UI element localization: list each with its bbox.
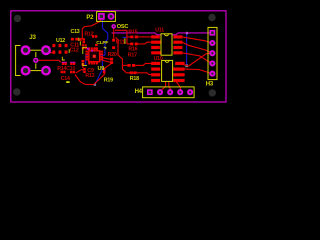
svg-text:R15: R15: [128, 29, 137, 35]
U9 pads top: [88, 47, 90, 50]
C11 pad 1: [82, 44, 84, 46]
J3 silk line bottom pads: [30, 70, 41, 72]
C12 pad 2: [85, 47, 87, 49]
H3 pad 4: [210, 61, 214, 65]
P2 silk box: [97, 12, 116, 22]
H4 pad 5: [188, 90, 192, 94]
capacitor C13: [71, 29, 82, 41]
wire red C9 to R13 stub: [82, 66, 84, 69]
R20 pad 1: [110, 58, 113, 61]
wire blue net from P2 pin1 down to U9: [102, 20, 107, 56]
wire red U11 to H3 pad3: [182, 42, 212, 53]
silk tick: [78, 38, 80, 41]
U9 pads right: [101, 51, 104, 53]
wire red U10 to H4 pad4: [175, 81, 180, 93]
wire red stub to R16 left pad: [127, 43, 131, 45]
U11 pads right: [173, 35, 182, 38]
C11 pad 2: [85, 44, 87, 46]
resistor R15: [128, 29, 138, 38]
wire red U10 to H4 pad3: [169, 80, 171, 92]
silk bar near R12: [79, 41, 81, 45]
silk tick bottom-left: [66, 81, 69, 83]
capacitor C14: [61, 71, 76, 83]
pad OSC: [112, 25, 115, 28]
mounting hole bottom-left: [13, 88, 20, 95]
P2 pad 2: [109, 14, 114, 19]
H3 pad 1 square: [210, 31, 214, 35]
wire blue vertical near H3: [186, 34, 188, 65]
resistor R16: [128, 43, 138, 53]
svg-text:U11: U11: [155, 28, 164, 34]
wire red OSC to R11: [113, 28, 115, 39]
silk bar near C12: [68, 49, 70, 53]
wire red P2 pin1 to R12: [82, 19, 101, 39]
R15 pad 2: [135, 36, 138, 39]
U9 body: [89, 51, 100, 62]
R12 pad 2: [83, 41, 86, 43]
wire red R18 to U10 pin: [130, 73, 152, 75]
U11 notch: [165, 34, 169, 36]
resistor R17: [128, 53, 138, 67]
wire red C14 pads to R13 pads: [76, 70, 84, 73]
C14 pad 3: [70, 71, 72, 74]
U10 pads left: [151, 62, 160, 65]
wire red U10 to H3 pad5: [185, 69, 212, 74]
U11 pads left: [151, 35, 160, 38]
R18 pad 2: [133, 71, 136, 74]
C12 pad 1: [82, 47, 84, 49]
U12 pads row2: [52, 51, 55, 54]
wire blue right drop below U9: [95, 55, 103, 84]
H4 pad 4: [178, 90, 182, 94]
C14 pad 4: [73, 71, 75, 74]
via: [91, 50, 93, 52]
C9 pad 2: [82, 63, 85, 66]
R16 pad 2: [135, 43, 138, 46]
via blue: [94, 83, 97, 86]
J3 silk stub above center pad: [35, 52, 37, 57]
C9 pad 1: [82, 60, 85, 63]
wire red U9 to R20 upper: [102, 58, 110, 60]
svg-text:U9: U9: [98, 66, 105, 72]
svg-text:R11: R11: [116, 40, 125, 46]
mounting hole top-left: [14, 15, 21, 22]
wire red U11 to H3 pad4: [182, 53, 212, 64]
H3 pad 5: [210, 72, 214, 76]
R12 pad 1: [83, 38, 86, 40]
IC U11: [151, 28, 182, 56]
H4 pad 2: [158, 90, 162, 94]
svg-text:R17: R17: [128, 53, 137, 59]
J3 pad 1: [22, 46, 30, 54]
wire red R15 to U11 pin: [138, 36, 152, 38]
pad single: [79, 38, 81, 41]
capacitor C10: [66, 62, 75, 72]
wire red U11 to H3 pad2: [182, 37, 212, 43]
mounting hole bottom-right: [209, 89, 216, 96]
R19 pad magenta: [103, 69, 105, 72]
silk corner below U12: [62, 57, 65, 60]
connector P2: [86, 12, 115, 22]
U9 silk corner top-left: [83, 47, 87, 54]
svg-text:CLPF: CLPF: [96, 40, 108, 46]
C14 pad 2: [63, 71, 65, 74]
U10 body: [162, 60, 173, 81]
svg-text:C13: C13: [71, 29, 80, 35]
wire red R11 down to R17/R18: [116, 38, 131, 73]
R11 pad 2: [112, 46, 115, 49]
J3 center pad: [34, 58, 38, 62]
J3 pad 4: [42, 67, 50, 75]
capacitor C9: [82, 60, 94, 74]
via: [87, 48, 89, 50]
C13 pad 1: [71, 38, 74, 41]
R17 pad 2: [132, 64, 135, 67]
via blue square: [185, 64, 188, 67]
R11 pad 1: [112, 39, 115, 42]
U9 center pad: [93, 55, 96, 58]
R16 pad 1: [130, 43, 133, 46]
wire blue under U9 horizontal: [86, 54, 105, 56]
silk bar left of R16: [124, 38, 126, 44]
resistor R11: [112, 39, 125, 49]
C10 pad 2: [73, 62, 75, 65]
U10 pads right: [175, 62, 184, 65]
wire blue stub near R16: [123, 36, 127, 38]
R15 pad 1: [130, 36, 133, 39]
H3 silk box: [208, 27, 217, 79]
via gray: [186, 32, 189, 35]
resistor R12: [83, 32, 94, 44]
wire red R17 to U10 pin: [135, 63, 151, 65]
wire purple net OSC to H3 pin1: [112, 33, 212, 35]
wire red R16 to U11 pin: [138, 42, 152, 44]
wire blue left drop at U9: [85, 55, 87, 65]
U9 pads bottom: [88, 62, 90, 65]
capacitor C11: [70, 42, 86, 48]
C10 pad 1: [70, 62, 72, 65]
wire red U10 to H4 pad2: [161, 80, 166, 92]
R20 pad 2: [110, 61, 113, 64]
J3 pad 2: [42, 46, 50, 54]
IC U12: [52, 38, 67, 54]
resistor R19: [103, 68, 113, 84]
H4 pad 3: [168, 90, 172, 94]
svg-text:OSC: OSC: [117, 24, 129, 30]
wire red U10 to H3 pad4: [182, 53, 212, 66]
P2 pad 1 square: [99, 14, 104, 19]
resistor R20: [108, 52, 117, 64]
connector H4: [135, 87, 195, 98]
svg-text:H3: H3: [206, 82, 214, 88]
R14 pad caps: [62, 62, 67, 63]
H4 pad 1 square: [148, 90, 152, 94]
J3 silk line top pads: [30, 49, 41, 51]
wire red R20 to R19: [105, 64, 111, 68]
wire red U9 to R20 lower: [102, 60, 110, 62]
svg-text:U12: U12: [56, 38, 65, 44]
capacitor C12: [70, 47, 87, 53]
U12 pads row1: [52, 44, 55, 47]
svg-text:R18: R18: [130, 76, 139, 82]
U10 notch: [165, 60, 169, 62]
C10 pad caps: [70, 62, 75, 63]
R13 pad 1: [83, 68, 86, 70]
wire red J3 pad2 to U12: [46, 50, 53, 53]
J3 silk stub below center pad: [35, 63, 37, 68]
R13 pad 2: [83, 71, 86, 73]
svg-text:R13: R13: [85, 73, 94, 79]
resistor R18: [130, 71, 139, 82]
resistor R14: [57, 62, 67, 72]
IC U9: [83, 47, 106, 72]
R18 pad 1: [130, 71, 133, 74]
H3 pad 2: [210, 41, 214, 45]
R17 pad 1: [128, 64, 131, 67]
board outline: [11, 11, 226, 102]
U9 pads left: [85, 51, 88, 53]
resistor R13: [83, 68, 94, 79]
wire red stub to R17 left pad: [123, 64, 129, 66]
wire red J3 center pad to C10: [39, 60, 61, 62]
wire red OSC to R15/R16 column: [115, 30, 127, 44]
H4 silk box: [143, 87, 195, 98]
svg-text:C12: C12: [70, 47, 79, 53]
connector H3: [206, 27, 217, 87]
svg-text:H4: H4: [135, 89, 143, 95]
J3 silkscreen bracket: [16, 46, 21, 76]
U9 silk corner bottom-left: [83, 63, 87, 65]
svg-text:J3: J3: [29, 34, 36, 41]
capacitor pads near R12: [92, 35, 94, 38]
svg-text:R20: R20: [108, 52, 117, 58]
R19 pad red: [103, 68, 106, 70]
pad CLPF cap: [95, 44, 98, 46]
svg-text:R19: R19: [104, 78, 113, 84]
connector J3: [16, 34, 50, 75]
wire red stub to R15 left pad: [127, 36, 131, 38]
svg-text:P2: P2: [86, 15, 94, 21]
mounting hole top-right: [208, 14, 215, 21]
R14 pad 1: [62, 62, 64, 65]
svg-text:R16: R16: [128, 46, 137, 52]
H3 pad 3: [210, 51, 214, 55]
J3 pad 3: [22, 67, 30, 75]
IC U10: [151, 56, 184, 82]
U11 body: [161, 34, 172, 55]
C13 pad 2: [75, 38, 78, 41]
R14 pad 2: [64, 62, 66, 65]
wire red C14 to R13: [75, 73, 104, 85]
U9 silk corner top-right: [104, 47, 106, 49]
C14 pad 1: [61, 71, 63, 74]
